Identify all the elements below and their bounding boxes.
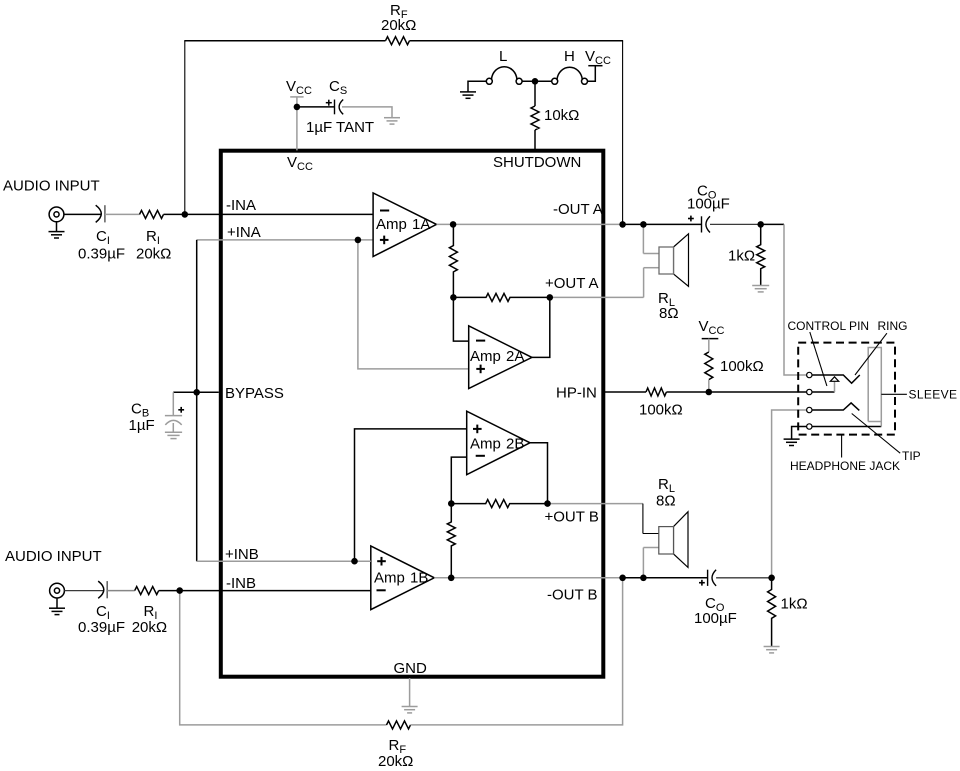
wire CO B to 1kΩ node	[716, 577, 772, 579]
switch S1 contact 3	[552, 78, 558, 84]
svg-text:Amp 2B: Amp 2B	[470, 436, 524, 453]
speaker RL (channel A)	[674, 234, 689, 286]
node -OUT B speaker junction	[640, 575, 647, 582]
Amp 2A minus sign	[476, 340, 485, 342]
op-amp Amp 2B	[467, 411, 530, 475]
node +INA junction	[355, 237, 362, 244]
ground (shutdown switch)	[460, 81, 486, 98]
capacitor CS	[335, 100, 344, 115]
wire feedback A: top across	[410, 40, 624, 42]
wire GND pin to ground	[409, 678, 411, 706]
wire +OUT A up to speaker A bottom	[643, 268, 645, 298]
resistor feedback A (vertical, internal)	[449, 224, 457, 297]
svg-text:100µF: 100µF	[694, 610, 737, 627]
svg-text:100µF: 100µF	[687, 196, 730, 213]
wire speaker B top feed down	[642, 504, 644, 534]
power symbol VCC (switch)	[588, 66, 603, 82]
wire CS to ground	[342, 107, 392, 118]
resistor RI (channel A)	[140, 210, 164, 218]
wire corner down to jack pin 1	[784, 224, 807, 375]
node Amp 1B output junction	[448, 575, 455, 582]
op-amp Amp 1A	[373, 193, 436, 257]
svg-text:BYPASS: BYPASS	[225, 385, 284, 402]
node Amp 1A output junction	[450, 221, 457, 228]
resistor RI (channel B)	[135, 587, 159, 595]
node -INA junction	[182, 211, 189, 218]
svg-text:AUDIO INPUT: AUDIO INPUT	[5, 548, 102, 565]
switch S1 arc position H	[557, 67, 582, 79]
wire input A connector to CI	[64, 213, 101, 215]
ground (input B connector)	[49, 598, 65, 615]
leader TIP	[852, 414, 901, 454]
wire VCC to pullup resistor	[708, 339, 710, 352]
node Amp 2B output junction	[544, 500, 551, 507]
wire input B connector to CI	[64, 590, 103, 592]
wire jack pin 4 to sleeve	[812, 426, 882, 428]
svg-text:1kΩ: 1kΩ	[781, 596, 808, 613]
node +INB junction	[351, 558, 358, 565]
svg-text:0.39µF: 0.39µF	[78, 246, 125, 263]
resistor 100kΩ (HP-IN series)	[646, 388, 666, 396]
wire speaker B bottom stub	[643, 547, 658, 549]
svg-text:100kΩ: 100kΩ	[720, 358, 764, 375]
control pin contact arrowhead	[830, 377, 838, 382]
headphone jack J3 enclosure (dashed)	[798, 343, 895, 435]
wire Amp 2A noninverting feed	[358, 240, 469, 369]
capacitor CO polarity plus (B)	[699, 580, 705, 586]
wire -OUT B feedback tap to CO B	[623, 577, 708, 579]
capacitor CO (channel B)	[708, 570, 717, 586]
jack sleeve conductor	[868, 348, 881, 427]
node switch center junction	[532, 78, 539, 85]
wire CO B node up to jack pin 3	[772, 410, 807, 578]
svg-text:HP-IN: HP-IN	[556, 385, 597, 402]
node -OUT A speaker junction	[640, 221, 647, 228]
wire +INB feed from common node	[197, 560, 371, 562]
svg-text:-INB: -INB	[226, 575, 256, 592]
svg-text:Amp 2A: Amp 2A	[470, 348, 524, 365]
wire Amp 1A output to node	[437, 223, 454, 225]
wire RI to -INA node	[164, 213, 185, 215]
power symbol VCC (HP sense pullup)	[702, 338, 719, 340]
op-amp IC U1 package outline	[221, 151, 604, 677]
svg-text:8Ω: 8Ω	[656, 493, 676, 510]
wire common node vertical (+INA/BYPASS/+INB)	[196, 240, 198, 561]
svg-text:20kΩ: 20kΩ	[381, 17, 416, 34]
node -OUT A feedback junction	[619, 221, 626, 228]
control pin contact stem	[834, 381, 836, 392]
ground (1kΩ A)	[752, 286, 769, 292]
svg-text:Amp 1A: Amp 1A	[376, 216, 430, 233]
wire feedback A: down to -OUT A	[622, 41, 624, 225]
wire Amp 2B output down to +OUT B node	[530, 443, 548, 504]
wire CI to RI (channel A)	[105, 213, 140, 215]
wire pullup to HP-IN node	[708, 380, 710, 392]
svg-text:-OUT A: -OUT A	[553, 201, 603, 218]
node +OUT B junction	[448, 500, 455, 507]
svg-text:-INA: -INA	[226, 197, 256, 214]
svg-text:1kΩ: 1kΩ	[728, 248, 755, 265]
node CO B output junction	[768, 575, 775, 582]
node -INB junction	[176, 587, 183, 594]
wire -OUT A node down to speaker A top	[642, 224, 644, 253]
wire jack pin 4 to ground	[792, 427, 807, 439]
wire -OUT B from node to feedback tap	[451, 577, 622, 579]
wire -INB into IC to Amp 1B inverting input	[180, 590, 371, 592]
wire -OUT B node up to speaker B bottom	[642, 548, 644, 578]
wire feedback A: across top	[184, 40, 385, 42]
ground (IC GND pin)	[402, 707, 418, 713]
wire feedback B: -INB node down and across bottom	[180, 591, 387, 725]
node HP-IN pullup junction	[706, 389, 713, 396]
wire feedback A: -INA node up	[184, 41, 186, 215]
wire Amp 2B noninverting feed	[355, 429, 467, 561]
svg-text:H: H	[564, 48, 575, 65]
resistor 100kΩ (pullup)	[705, 352, 713, 380]
Amp 2A plus sign	[476, 365, 485, 374]
switch S1 contact 4	[582, 78, 588, 84]
connector J1 audio input A	[49, 207, 64, 222]
node +OUT A junction	[547, 294, 554, 301]
wire +OUT A from node to speaker A	[550, 296, 644, 298]
resistor gain A (horizontal, internal)	[453, 293, 549, 301]
svg-text:100kΩ: 100kΩ	[639, 402, 683, 419]
wire CI to RI (channel B)	[107, 590, 135, 592]
wire Amp 2A output up to +OUT A node	[532, 297, 550, 357]
Amp 1A minus sign	[380, 210, 389, 212]
wire -OUT A from node to feedback tap	[453, 223, 622, 225]
Amp 1A plus sign	[380, 236, 389, 245]
Amp 1B plus sign	[377, 557, 386, 566]
svg-text:0.39µF: 0.39µF	[78, 619, 125, 636]
switch S1 contact 1	[486, 78, 492, 84]
resistor 1kΩ (channel A load)	[757, 224, 765, 285]
wire VCC node to IC VCC pin	[296, 107, 298, 150]
wire Amp 1B output to node	[434, 577, 451, 579]
capacitor CO (channel A)	[702, 216, 711, 232]
switch S1 arc position L	[492, 67, 517, 80]
svg-text:20kΩ: 20kΩ	[136, 246, 171, 263]
wire switch node down to resistor	[534, 81, 536, 106]
node BYPASS junction	[193, 389, 200, 396]
speaker RL (channel B)	[674, 512, 689, 568]
wire feedback B: bottom across and up to -OUT B	[411, 578, 623, 725]
power symbol VCC (supply bypass)	[290, 97, 303, 107]
ground (input A connector)	[49, 222, 65, 238]
svg-text:CONTROL PIN: CONTROL PIN	[788, 319, 870, 333]
leader SLEEVE	[881, 393, 907, 395]
node -OUT B feedback junction	[619, 575, 626, 582]
Amp 2B minus sign	[476, 455, 485, 457]
resistor feedback B (vertical, internal)	[447, 504, 455, 578]
svg-text:-OUT B: -OUT B	[547, 587, 598, 604]
svg-text:1µF: 1µF	[129, 417, 155, 434]
capacitor CI (channel A)	[96, 205, 102, 222]
svg-text:20kΩ: 20kΩ	[378, 753, 413, 770]
wire resistor to jack pin 2	[666, 391, 807, 393]
wire Amp 2B inverting feed	[451, 457, 466, 504]
node VCC/CS junction	[294, 104, 301, 111]
jack pin 3 terminal	[807, 407, 812, 412]
svg-text:Amp 1B: Amp 1B	[374, 570, 428, 587]
wire CO A node to corner	[761, 223, 784, 225]
ground (1kΩ B)	[764, 647, 780, 653]
op-amp Amp 2A	[469, 326, 532, 389]
wire speaker B top stub	[643, 533, 659, 535]
resistor 10kΩ (shutdown pulldown)	[531, 106, 539, 130]
switch S1 contact 2	[516, 78, 522, 84]
svg-text:TIP: TIP	[902, 449, 921, 463]
wire +INA feed from common node	[197, 239, 373, 241]
svg-text:L: L	[499, 48, 507, 65]
svg-text:HEADPHONE JACK: HEADPHONE JACK	[790, 459, 900, 473]
wire +OUT B from node to speaker B	[548, 503, 643, 505]
jack pin 2 terminal	[807, 389, 812, 394]
svg-text:+OUT A: +OUT A	[545, 275, 599, 292]
svg-text:SLEEVE: SLEEVE	[909, 388, 958, 402]
Amp 2B plus sign	[473, 425, 482, 434]
wire -INA into IC to Amp 1A inverting input	[185, 213, 373, 215]
leader CONTROL PIN	[810, 332, 827, 386]
svg-text:+OUT B: +OUT B	[545, 509, 599, 526]
capacitor CO polarity plus (A)	[688, 216, 694, 222]
svg-text:20kΩ: 20kΩ	[132, 619, 167, 636]
svg-text:10kΩ: 10kΩ	[544, 107, 579, 124]
capacitor CB	[165, 416, 182, 425]
svg-text:+INA: +INA	[227, 224, 261, 241]
svg-text:GND: GND	[394, 660, 428, 677]
svg-text:SHUTDOWN: SHUTDOWN	[493, 154, 581, 171]
wire contact2 to center node	[522, 80, 552, 82]
wire -OUT A feedback tap to CO A	[623, 223, 702, 225]
resistor RF (bottom feedback)	[387, 721, 411, 729]
ground (CS)	[384, 118, 400, 124]
Amp 1B minus sign	[377, 589, 386, 591]
wire resistor to SHUTDOWN pin	[534, 130, 536, 150]
leader RING	[855, 333, 887, 375]
resistor RF (top feedback)	[386, 37, 410, 45]
capacitor CS polarity plus	[326, 100, 332, 106]
wire jack pin 3 tip contact	[812, 403, 860, 411]
node CO A output junction	[757, 221, 764, 228]
wire speaker A bottom stub	[644, 267, 659, 269]
leader HEADPHONE JACK	[841, 435, 843, 458]
wire jack pin 1 ring contact	[812, 375, 860, 383]
wire CO A to 1kΩ node	[710, 223, 761, 225]
resistor gain B (horizontal, internal)	[451, 500, 547, 508]
jack pin 1 terminal	[807, 372, 812, 377]
svg-text:AUDIO INPUT: AUDIO INPUT	[3, 178, 100, 195]
wire RI to -INB node	[159, 590, 180, 592]
wire BYPASS pin to CB	[173, 391, 219, 393]
op-amp Amp 1B	[371, 546, 435, 610]
wire speaker A top stub	[643, 253, 659, 255]
svg-text:8Ω: 8Ω	[659, 305, 679, 322]
capacitor CB polarity plus	[178, 407, 184, 413]
wire jack pin 2 to control contact	[812, 391, 835, 393]
node gain A junction	[450, 294, 457, 301]
ground (jack)	[784, 439, 800, 445]
wire VCC node to CS plus plate	[297, 106, 335, 108]
wire Amp 2A inverting feed	[453, 297, 468, 341]
svg-text:1µF TANT: 1µF TANT	[306, 119, 374, 136]
ground (CB)	[165, 423, 182, 439]
capacitor CI (channel B)	[98, 581, 104, 598]
wire HP-IN pin to resistor	[605, 391, 646, 393]
svg-text:RING: RING	[878, 319, 908, 333]
resistor 1kΩ (channel B load)	[768, 578, 776, 646]
wire CB top lead	[172, 392, 174, 415]
jack pin 4 terminal	[807, 424, 812, 429]
connector J2 audio input B	[50, 583, 65, 598]
